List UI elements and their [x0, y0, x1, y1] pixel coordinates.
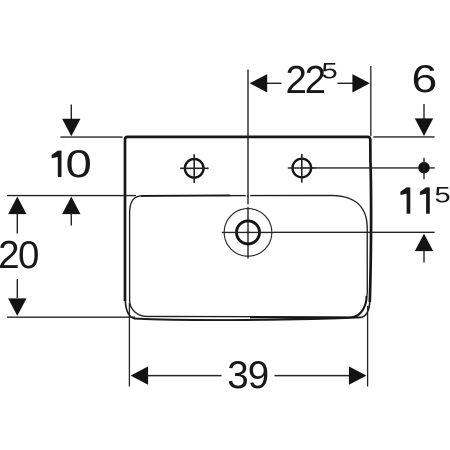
dim 10 down arrow — [62, 119, 80, 137]
drain outer circle — [224, 209, 272, 257]
measuring point dot — [418, 162, 429, 173]
tap hole left circle — [185, 159, 204, 178]
svg-text:5: 5 — [435, 184, 450, 208]
dim 22.5 dimension line left tail — [266, 82, 282, 84]
dim 39 right arrow — [349, 366, 367, 384]
dim 22.5 right extension line — [370, 66, 372, 136]
label 10 — [52, 151, 62, 177]
drain inner circle — [237, 221, 260, 244]
dim 20 up arrow — [8, 197, 26, 215]
dim 10 upper extension line — [60, 136, 122, 138]
dim 11.5 arrow tail — [423, 250, 425, 263]
dim 10 arrow tail bottom — [70, 213, 72, 226]
dim 6 arrow tail — [423, 104, 425, 119]
dim 39 left arrow — [131, 366, 149, 384]
svg-text:0: 0 — [66, 143, 92, 186]
dim 10 up arrow — [62, 197, 80, 215]
inner bowl outline — [130, 195, 368, 317]
dim 6 down arrow — [415, 118, 433, 135]
centerline through drain (lower / drain cross vertical) — [247, 207, 249, 259]
dim 20 arrow tail top — [16, 213, 18, 234]
tap hole right cross horizontal — [288, 167, 316, 169]
inner bowl bottom thick overlay — [250, 296, 367, 318]
dim 20 down arrow — [8, 298, 26, 316]
dim 22.5 left arrow — [250, 74, 268, 92]
svg-text:6: 6 — [412, 59, 438, 102]
tap hole right circle — [293, 159, 312, 178]
dim 22.5 right tail — [338, 82, 354, 84]
svg-text:9: 9 — [248, 354, 269, 397]
basin bottom extension line to left — [7, 316, 135, 318]
dim 39 left extension line — [128, 303, 130, 387]
tap hole left cross horizontal — [180, 167, 208, 169]
tap hole right cross vertical — [301, 154, 303, 183]
dim 11.5 up arrow — [415, 234, 433, 252]
dim 20 arrow tail bottom — [16, 279, 18, 298]
tap hole left cross vertical — [193, 154, 195, 183]
inner bowl top edge thick overlay — [141, 194, 230, 197]
dim 39 right tail — [275, 375, 350, 377]
tap hole line to dot — [302, 167, 435, 169]
svg-text:5: 5 — [322, 60, 338, 84]
basin outer bottom-right corner — [362, 298, 370, 317]
basin outer bottom-left corner — [125, 296, 134, 319]
svg-text:0: 0 — [18, 234, 39, 277]
dim 10 arrow tail top — [70, 105, 72, 120]
basin outer bottom edge — [134, 317, 362, 320]
svg-text:2: 2 — [0, 234, 20, 277]
drain cross horizontal — [222, 231, 274, 233]
inner bowl top extension line to left — [7, 195, 136, 197]
dim 39 left tail — [147, 375, 222, 377]
drain center mini cross — [245, 229, 251, 235]
centerline through drain (upper) — [247, 70, 249, 205]
svg-text:3: 3 — [227, 354, 248, 397]
dim 22.5 right arrow — [352, 74, 370, 92]
dot vertical tick — [423, 158, 425, 179]
bowl top edge white breaks at centerline — [246, 194, 247, 197]
basin outer outline (top + sides) — [125, 137, 371, 302]
drain extension line to right — [274, 231, 435, 233]
label 11 — [400, 187, 410, 213]
dim 39 right extension line — [367, 306, 369, 387]
top edge right extension line — [373, 136, 434, 138]
